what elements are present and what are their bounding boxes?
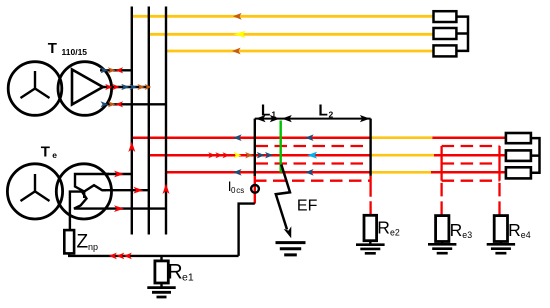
feeder F1 yellow middle [371,136,433,139]
svg-text:R: R [377,218,390,238]
transformer Te wye symbol [21,174,50,201]
svg-text:T: T [41,143,50,160]
svg-text:e4: e4 [521,230,531,240]
feeder F2 yellow middle [371,154,434,157]
transformer Te zigzag circle [56,164,111,219]
resistor Re3 ground stub [441,242,443,245]
arrow brown Y1 [233,13,242,20]
arrow blue2 F1 [305,134,314,141]
node CS red vertical [254,174,256,204]
transformer T1 primary circle [8,62,62,116]
resistor Re2 ground stub [369,241,371,245]
svg-text:e2: e2 [390,227,400,237]
feeder F3 yellow middle [371,171,431,174]
load box Y1 [434,11,457,22]
wire T1 line1 [100,69,132,71]
arrow brown1 T1L2 [137,84,144,90]
transformer Te zigzag winding bottom [70,192,106,231]
feeder F3 red left [166,171,371,174]
feeder F2 red right [434,154,506,157]
arrow red1 F2 [208,152,215,158]
svg-text:e1: e1 [182,272,194,284]
resistor Re1 ground stub [160,283,162,288]
ground Re2 [356,245,385,254]
load box F1 [506,133,531,143]
ground EF [276,243,306,255]
wire Te line3 [105,207,166,209]
transformer Te zigzag winding top [75,174,109,198]
dimension arrow L1 right [270,115,280,122]
dimension arrow left [256,115,266,122]
feeder F1 red left [132,136,371,139]
arrow red2 neutral [116,253,124,260]
feeder F2 red left [149,154,371,157]
dimension line L [255,118,371,120]
arrow blue1 T1L2 [121,84,129,90]
arrow red T1L3 [115,101,123,107]
dimension arrow L2 right [360,115,370,122]
arrow red1 neutral [109,253,117,260]
wire CS to neutral [239,204,255,256]
ground Re4 [487,244,515,253]
arrow red TeL2 [133,187,143,194]
ground Re1 [147,288,175,297]
yellow feeder Y2 [149,33,434,36]
sheath dashed D2 right [442,162,500,164]
wire T1 line3 [103,103,166,105]
load box F2 [506,150,531,161]
arrow red TeL1 [114,171,124,178]
svg-text:cs: cs [236,186,244,195]
yellow feeder Y1 [132,15,434,18]
arrow cyan F2 [307,152,317,159]
arrow red busbar3 up [163,184,170,195]
transformer T1 wye symbol [21,71,50,98]
ground Re3 [428,244,456,253]
arrow blue T1L1 [101,67,109,73]
svg-text:T: T [48,40,57,57]
arrow red TeL3 [114,205,124,212]
yellow feeder Y3 [166,50,434,53]
busbar B1 [131,7,133,235]
resistor Re4 ground stub [500,242,502,245]
resistor Re4 box [494,216,507,242]
sheath dashed D3 right [442,180,500,182]
arrow brown2 T1L2 [145,84,152,90]
svg-text:e3: e3 [462,230,472,240]
arrow blue1 F3 [233,169,242,176]
arrow brown Y3 [232,48,241,55]
load box Y3 [434,45,457,56]
transformer T1 delta symbol [72,70,103,105]
wire CS vertical black [254,119,256,176]
wire Re3 drop [440,146,442,181]
load box F3 [506,167,531,178]
arrow red busbar1 up [128,142,135,153]
feeder F3 red right [431,171,506,174]
svg-text:R: R [450,220,463,240]
resistor Re2 box [364,215,377,240]
load bracket Y [456,17,468,51]
sheath dashed D1 right [442,145,500,147]
arrow blue2 F3 [305,169,314,176]
arrow red T1L1 [115,67,123,73]
svg-text:1: 1 [271,110,276,120]
svg-text:110/15: 110/15 [62,47,88,57]
arrow brown T1L1 [108,67,116,73]
wire T1 line2 [103,86,149,88]
svg-text:L: L [261,103,270,120]
arrow red2 T1L2 [112,84,119,90]
transformer T1 secondary circle [58,62,112,116]
arrow brown T1L3 [108,101,116,107]
sheath dashed D3 middle [254,180,371,182]
arrow blue T1L3 [101,101,109,107]
wire Te line2 [102,189,149,191]
green fault line [280,121,282,173]
svg-text:EF: EF [297,197,318,214]
arrow blue2 T1L2 [130,84,137,90]
busbar B2 [148,7,150,235]
wire Re2 drop dashed [369,176,371,216]
load box Y2 [434,28,457,39]
arrow yellow Y2 [233,31,245,38]
resistor Re3 box [436,216,449,242]
svg-text:np: np [88,242,98,252]
current sensor I0cs circle [251,185,259,193]
svg-text:R: R [168,260,183,283]
transformer Te primary circle [7,164,62,219]
wire Re4 drop [498,146,500,181]
arrow blue2 F2 [265,152,273,158]
impedance Znp box [64,230,74,253]
svg-text:L: L [318,103,327,120]
feeder F1 red right [432,136,506,139]
arrow yellow F2 [234,152,242,158]
arrow red1 T1L2 [105,84,112,90]
arrow brown F2 [245,152,253,158]
load bracket F [531,138,540,173]
dimension arrow L2 left [282,115,292,122]
earth fault bolt EF [276,165,290,230]
wire neutral [69,253,238,256]
sheath dashed D1 middle [256,145,371,147]
resistor Re1 box [155,261,168,283]
arrow red3 F2 [223,152,230,158]
wire Te line1 [105,173,132,175]
arrow red2 F2 [215,152,222,158]
svg-text:R: R [508,220,521,240]
arrow blue1 F2 [257,152,265,158]
arrow red3 neutral [124,253,132,260]
busbar B3 [165,7,167,235]
sheath dashed D2 middle [256,162,371,164]
svg-text:Z: Z [77,232,89,253]
svg-text:2: 2 [329,110,334,120]
arrow blue1 F1 [233,134,242,141]
wire L2 end vertical [369,119,371,176]
svg-text:e: e [52,150,57,160]
resistor Re1 connection [160,256,162,261]
